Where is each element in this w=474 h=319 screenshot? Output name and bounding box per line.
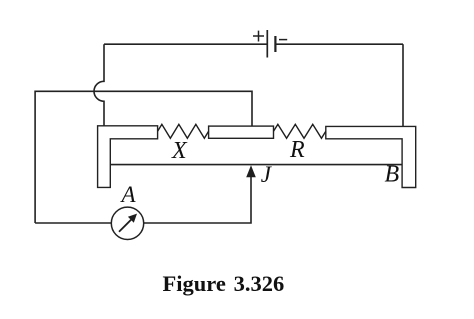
svg-text:X: X <box>171 138 188 164</box>
svg-text:R: R <box>289 137 305 163</box>
svg-text:B: B <box>385 161 400 187</box>
svg-text:J: J <box>261 162 273 187</box>
svg-text:3.326: 3.326 <box>234 271 285 296</box>
svg-text:Figure: Figure <box>163 271 226 296</box>
svg-text:A: A <box>120 182 137 207</box>
